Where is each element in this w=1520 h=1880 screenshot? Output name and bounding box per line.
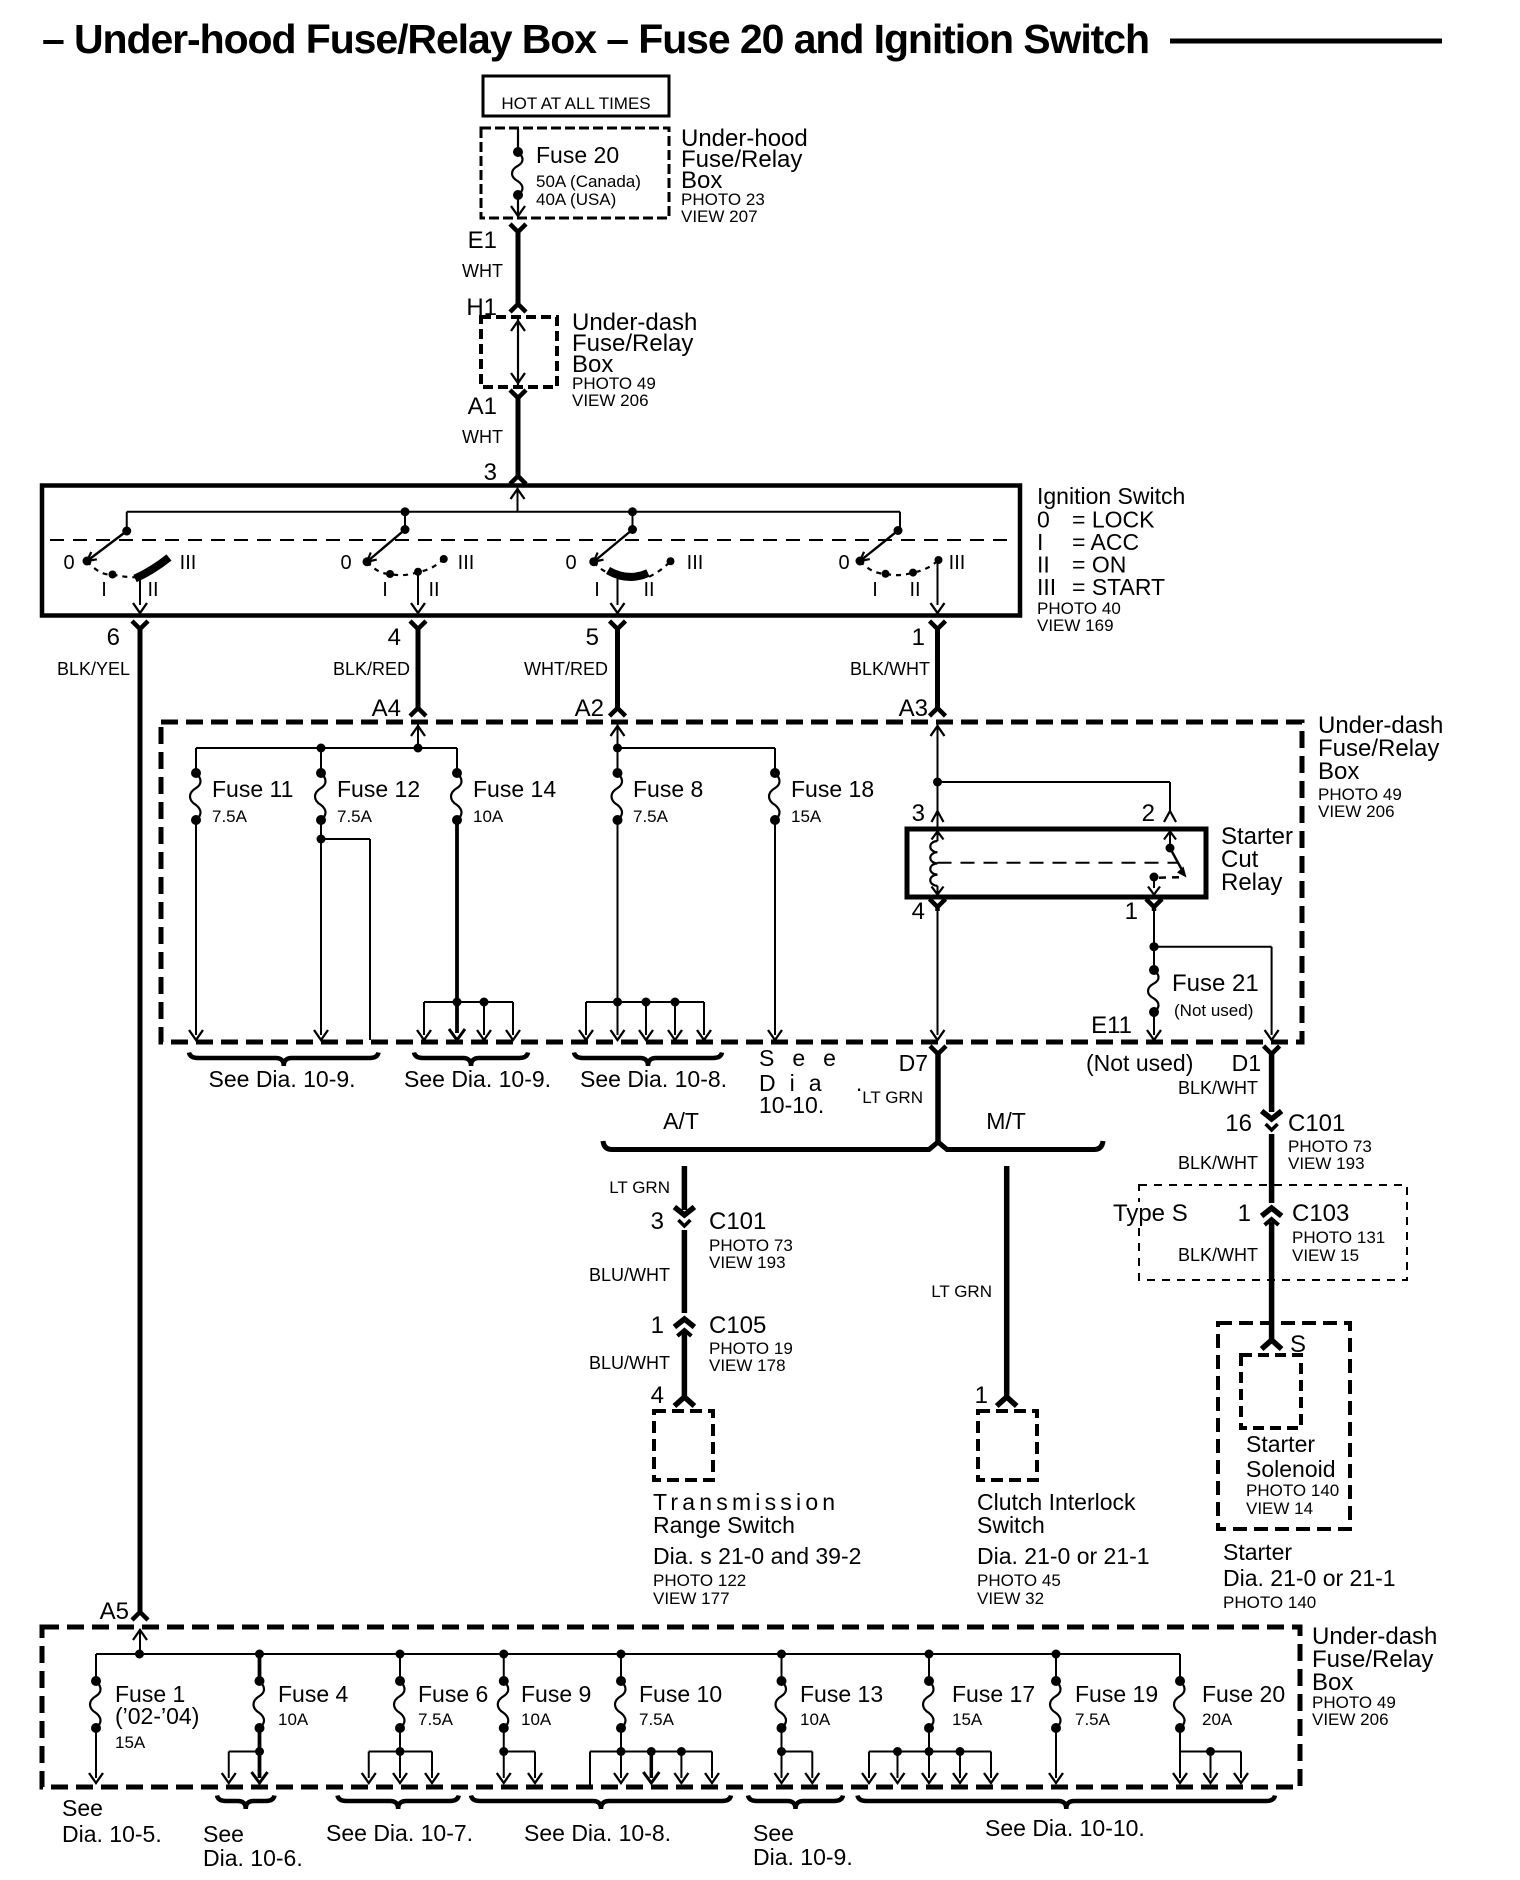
svg-text:Fuse 20: Fuse 20 <box>1202 1681 1285 1707</box>
svg-text:I: I <box>382 579 388 601</box>
svg-text:LT GRN: LT GRN <box>862 1088 923 1107</box>
svg-text:BLK/WHT: BLK/WHT <box>850 659 930 679</box>
svg-text:Fuse 4: Fuse 4 <box>278 1681 349 1707</box>
svg-text:I: I <box>101 579 107 601</box>
svg-text:BLU/WHT: BLU/WHT <box>589 1353 670 1373</box>
svg-text:Fuse 14: Fuse 14 <box>473 776 556 802</box>
svg-text:10A: 10A <box>473 807 504 826</box>
svg-text:See: See <box>759 1045 854 1071</box>
svg-text:BLU/WHT: BLU/WHT <box>589 1265 670 1285</box>
svg-text:PHOTO 122: PHOTO 122 <box>653 1571 746 1590</box>
svg-text:See: See <box>753 1820 794 1846</box>
svg-text:4: 4 <box>651 1382 664 1409</box>
svg-text:III: III <box>458 552 475 574</box>
svg-text:20A: 20A <box>1202 1710 1233 1729</box>
svg-text:III: III <box>687 552 704 574</box>
svg-text:BLK/WHT: BLK/WHT <box>1178 1078 1258 1098</box>
svg-text:7.5A: 7.5A <box>337 807 373 826</box>
svg-text:4: 4 <box>388 624 401 651</box>
svg-text:See: See <box>203 1821 244 1847</box>
svg-text:M/T: M/T <box>986 1108 1026 1134</box>
svg-text:3: 3 <box>651 1208 664 1235</box>
svg-text:Relay: Relay <box>1221 869 1282 896</box>
svg-text:10A: 10A <box>521 1710 552 1729</box>
svg-text:1: 1 <box>975 1382 988 1409</box>
svg-text:Fuse 13: Fuse 13 <box>800 1681 883 1707</box>
svg-text:(’02-’04): (’02-’04) <box>115 1703 199 1729</box>
svg-text:C103: C103 <box>1292 1200 1349 1227</box>
svg-text:Dia. 21-0 or 21-1: Dia. 21-0 or 21-1 <box>977 1543 1150 1569</box>
svg-text:Dia. 10-9.: Dia. 10-9. <box>753 1844 853 1870</box>
svg-text:7.5A: 7.5A <box>212 807 248 826</box>
svg-text:E1: E1 <box>468 227 497 254</box>
svg-text:VIEW 206: VIEW 206 <box>1312 1710 1389 1729</box>
svg-text:15A: 15A <box>952 1710 983 1729</box>
svg-text:HOT AT ALL TIMES: HOT AT ALL TIMES <box>501 94 650 113</box>
svg-text:2: 2 <box>1142 800 1155 827</box>
svg-text:See Dia. 10-8.: See Dia. 10-8. <box>524 1820 671 1846</box>
svg-text:Dia. 10-6.: Dia. 10-6. <box>203 1845 303 1871</box>
svg-text:II: II <box>147 579 158 601</box>
svg-text:VIEW 15: VIEW 15 <box>1292 1246 1359 1265</box>
svg-text:3: 3 <box>484 459 497 486</box>
svg-text:D1: D1 <box>1232 1050 1261 1076</box>
svg-text:WHT/RED: WHT/RED <box>524 659 608 679</box>
svg-text:VIEW 14: VIEW 14 <box>1246 1499 1313 1518</box>
svg-text:See Dia. 10-8.: See Dia. 10-8. <box>580 1066 727 1092</box>
svg-text:WHT: WHT <box>462 427 503 447</box>
svg-text:Range Switch: Range Switch <box>653 1512 795 1538</box>
svg-text:VIEW 32: VIEW 32 <box>977 1589 1044 1608</box>
svg-text:PHOTO 140: PHOTO 140 <box>1223 1593 1316 1612</box>
svg-text:(Not used): (Not used) <box>1174 1001 1253 1020</box>
svg-text:Dia. s 21-0 and 39-2: Dia. s 21-0 and 39-2 <box>653 1543 861 1569</box>
svg-text:= START: = START <box>1072 574 1165 600</box>
svg-text:7.5A: 7.5A <box>639 1710 675 1729</box>
svg-text:VIEW 178: VIEW 178 <box>709 1356 786 1375</box>
svg-text:A/T: A/T <box>663 1108 699 1134</box>
svg-text:Fuse 9: Fuse 9 <box>521 1681 591 1707</box>
svg-text:PHOTO 45: PHOTO 45 <box>977 1571 1061 1590</box>
svg-text:PHOTO 131: PHOTO 131 <box>1292 1228 1385 1247</box>
svg-text:VIEW 207: VIEW 207 <box>681 207 758 226</box>
svg-text:7.5A: 7.5A <box>1075 1710 1111 1729</box>
svg-text:BLK/YEL: BLK/YEL <box>57 659 130 679</box>
svg-text:Fuse 12: Fuse 12 <box>337 776 420 802</box>
svg-text:PHOTO 140: PHOTO 140 <box>1246 1481 1339 1500</box>
svg-text:II: II <box>428 579 439 601</box>
svg-text:E11: E11 <box>1091 1012 1132 1039</box>
svg-text:BLK/WHT: BLK/WHT <box>1178 1245 1258 1265</box>
svg-text:7.5A: 7.5A <box>633 807 669 826</box>
svg-text:D7: D7 <box>899 1050 928 1076</box>
svg-text:A3: A3 <box>899 695 928 722</box>
svg-text:WHT: WHT <box>462 261 503 281</box>
svg-text:BLK/WHT: BLK/WHT <box>1178 1153 1258 1173</box>
svg-text:– Under-hood Fuse/Relay Box –: – Under-hood Fuse/Relay Box – Fuse 20 an… <box>42 16 1150 62</box>
svg-text:Box: Box <box>1318 758 1359 785</box>
svg-text:See Dia. 10-10.: See Dia. 10-10. <box>985 1815 1145 1841</box>
svg-text:Fuse 19: Fuse 19 <box>1075 1681 1158 1707</box>
svg-text:Fuse 6: Fuse 6 <box>418 1681 488 1707</box>
svg-text:See: See <box>62 1795 103 1821</box>
svg-text:0: 0 <box>340 552 351 574</box>
svg-text:1: 1 <box>1238 1200 1251 1227</box>
svg-text:Fuse 18: Fuse 18 <box>791 776 874 802</box>
svg-text:Dia. 10-5.: Dia. 10-5. <box>62 1821 162 1847</box>
svg-text:III: III <box>1037 574 1056 600</box>
svg-text:C101: C101 <box>1288 1110 1345 1137</box>
svg-text:(Not used): (Not used) <box>1086 1050 1193 1076</box>
svg-text:10-10.: 10-10. <box>759 1092 824 1118</box>
svg-text:I: I <box>872 579 878 601</box>
svg-text:III: III <box>180 552 197 574</box>
svg-text:Fuse 10: Fuse 10 <box>639 1681 722 1707</box>
svg-text:Fuse 20: Fuse 20 <box>536 142 619 168</box>
svg-text:15A: 15A <box>115 1733 146 1752</box>
svg-text:0: 0 <box>63 552 74 574</box>
svg-text:Fuse 11: Fuse 11 <box>212 776 293 802</box>
svg-text:6: 6 <box>107 624 120 651</box>
svg-text:II: II <box>643 579 654 601</box>
svg-text:Starter: Starter <box>1223 1539 1292 1565</box>
svg-text:II: II <box>909 579 920 601</box>
svg-text:Dia. 21-0 or 21-1: Dia. 21-0 or 21-1 <box>1223 1565 1396 1591</box>
svg-text:10A: 10A <box>278 1710 309 1729</box>
svg-text:A1: A1 <box>468 393 497 420</box>
svg-text:16: 16 <box>1225 1110 1252 1137</box>
svg-text:Fuse 8: Fuse 8 <box>633 776 703 802</box>
svg-text:5: 5 <box>586 624 599 651</box>
svg-text:VIEW 193: VIEW 193 <box>1288 1154 1365 1173</box>
svg-text:4: 4 <box>912 898 925 925</box>
svg-text:1: 1 <box>912 624 925 651</box>
svg-text:A5: A5 <box>100 1598 129 1625</box>
svg-text:0: 0 <box>565 552 576 574</box>
svg-text:40A (USA): 40A (USA) <box>536 190 616 209</box>
svg-text:A2: A2 <box>575 695 604 722</box>
svg-text:7.5A: 7.5A <box>418 1710 454 1729</box>
svg-text:I: I <box>594 579 600 601</box>
svg-text:3: 3 <box>912 800 925 827</box>
svg-text:VIEW 206: VIEW 206 <box>572 391 649 410</box>
svg-text:1: 1 <box>1125 898 1138 925</box>
svg-text:LT GRN: LT GRN <box>609 1178 670 1197</box>
svg-text:Fuse 17: Fuse 17 <box>952 1681 1035 1707</box>
svg-text:Fuse 21: Fuse 21 <box>1172 970 1259 997</box>
svg-text:See Dia. 10-9.: See Dia. 10-9. <box>209 1066 356 1092</box>
svg-text:A4: A4 <box>372 695 401 722</box>
svg-text:VIEW 169: VIEW 169 <box>1037 616 1114 635</box>
svg-text:Starter: Starter <box>1246 1431 1315 1457</box>
svg-text:VIEW 193: VIEW 193 <box>709 1253 786 1272</box>
svg-text:Ignition Switch: Ignition Switch <box>1037 483 1185 509</box>
svg-text:1: 1 <box>651 1312 664 1339</box>
svg-text:BLK/RED: BLK/RED <box>333 659 410 679</box>
svg-text:15A: 15A <box>791 807 822 826</box>
svg-text:0: 0 <box>838 552 849 574</box>
svg-text:Box: Box <box>1312 1669 1353 1696</box>
svg-text:See Dia. 10-9.: See Dia. 10-9. <box>404 1066 551 1092</box>
svg-text:VIEW 177: VIEW 177 <box>653 1589 730 1608</box>
svg-text:See Dia. 10-7.: See Dia. 10-7. <box>326 1820 473 1846</box>
svg-text:VIEW 206: VIEW 206 <box>1318 802 1395 821</box>
svg-text:C105: C105 <box>709 1312 766 1339</box>
svg-text:Solenoid: Solenoid <box>1246 1456 1336 1482</box>
svg-text:Type S: Type S <box>1113 1200 1188 1227</box>
svg-text:LT GRN: LT GRN <box>931 1282 992 1301</box>
svg-text:III: III <box>949 552 966 574</box>
svg-text:C101: C101 <box>709 1208 766 1235</box>
svg-text:Switch: Switch <box>977 1512 1045 1538</box>
svg-text:50A (Canada): 50A (Canada) <box>536 172 641 191</box>
svg-text:10A: 10A <box>800 1710 831 1729</box>
